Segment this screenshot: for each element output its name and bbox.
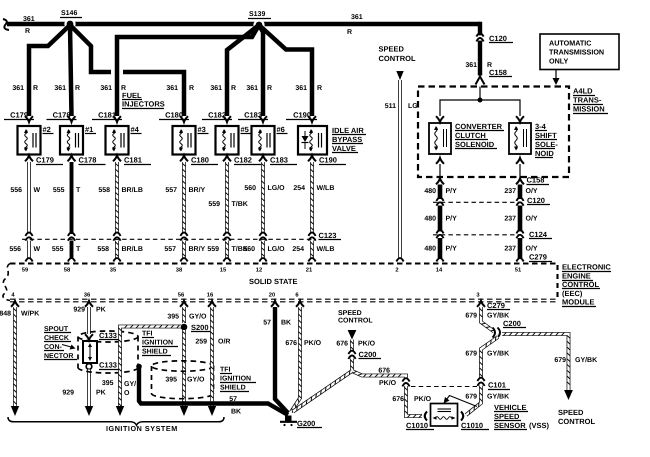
svg-text:SOLE-: SOLE- xyxy=(535,140,558,149)
wire 558 BR/LB xyxy=(115,162,119,234)
note box AUTOMATIC TRANSMISSION ONLY xyxy=(540,34,619,70)
node S200 xyxy=(181,324,188,331)
svg-text:559: 559 xyxy=(208,201,220,208)
svg-text:848: 848 xyxy=(0,311,11,318)
A4LD transmission boundary (dashed) xyxy=(418,87,569,178)
svg-text:C178: C178 xyxy=(79,156,97,165)
svg-text:C200: C200 xyxy=(359,350,377,359)
wire 679 GY/BK to speed control (right) xyxy=(502,334,569,390)
wire 361 R to injector #5 xyxy=(227,25,259,116)
electronic engine control module boundary (dashed) xyxy=(10,262,556,264)
svg-text:679: 679 xyxy=(465,394,477,401)
svg-text:36: 36 xyxy=(84,292,91,299)
svg-text:T: T xyxy=(76,187,81,194)
svg-text:15: 15 xyxy=(220,268,227,274)
wire 57 BK shield ground xyxy=(136,364,142,370)
connector C1010 (right) xyxy=(461,412,463,421)
svg-text:361: 361 xyxy=(100,85,112,92)
svg-text:395: 395 xyxy=(165,377,177,384)
svg-text:558: 558 xyxy=(98,187,110,194)
wire 361 R to injector #3 xyxy=(70,25,111,72)
svg-text:O/R: O/R xyxy=(218,338,230,346)
svg-text:PK/O: PK/O xyxy=(304,339,322,347)
svg-text:SHIELD: SHIELD xyxy=(220,385,246,392)
svg-text:NOID: NOID xyxy=(535,149,554,158)
wire 848 W/PK xyxy=(11,301,19,307)
svg-text:#3: #3 xyxy=(198,125,206,134)
wire 557 BR/Y xyxy=(182,162,186,234)
svg-text:SOLENOID: SOLENOID xyxy=(455,140,495,149)
converter clutch solenoid xyxy=(436,116,444,122)
svg-text:CONTROL: CONTROL xyxy=(338,318,373,325)
svg-text:679: 679 xyxy=(465,313,477,320)
svg-text:O/Y: O/Y xyxy=(526,215,538,223)
node S146 xyxy=(64,18,75,29)
svg-text:CONTROL: CONTROL xyxy=(562,280,599,289)
wire 395 GY/O from EEC pin 56 xyxy=(180,301,188,307)
svg-text:BR/Y: BR/Y xyxy=(189,245,206,253)
svg-text:#4: #4 xyxy=(131,125,140,134)
svg-text:929: 929 xyxy=(73,307,85,314)
svg-text:361: 361 xyxy=(351,14,363,21)
wire 511 LG from speed control xyxy=(396,71,403,80)
svg-text:555: 555 xyxy=(52,246,64,253)
wire 361 R to idle air bypass valve xyxy=(259,25,312,116)
svg-text:R: R xyxy=(189,85,194,92)
vehicle speed sensor VSS xyxy=(431,404,458,427)
svg-text:PK/O: PK/O xyxy=(414,395,432,403)
svg-text:3-4: 3-4 xyxy=(535,122,547,131)
svg-text:#2: #2 xyxy=(43,125,51,134)
svg-text:C183: C183 xyxy=(270,156,288,165)
svg-text:SPEED: SPEED xyxy=(558,408,584,417)
svg-text:12: 12 xyxy=(256,267,262,274)
svg-text:557: 557 xyxy=(165,187,177,194)
svg-text:56: 56 xyxy=(178,292,185,299)
svg-text:SHIELD: SHIELD xyxy=(142,349,168,356)
svg-text:676: 676 xyxy=(378,368,390,375)
svg-text:IGNITION SYSTEM: IGNITION SYSTEM xyxy=(106,424,178,433)
wire 555 T xyxy=(70,162,74,234)
svg-text:C158: C158 xyxy=(527,176,545,185)
svg-text:MODULE: MODULE xyxy=(562,298,595,307)
svg-text:SENSOR: SENSOR xyxy=(494,421,526,430)
svg-text:58: 58 xyxy=(64,267,71,274)
svg-text:GY/O: GY/O xyxy=(189,313,207,321)
svg-text:676: 676 xyxy=(336,341,348,348)
svg-text:CONTROL: CONTROL xyxy=(379,54,416,63)
wire 556 W xyxy=(27,162,31,234)
wire 559 T/BK xyxy=(225,162,229,234)
svg-text:676: 676 xyxy=(392,396,404,403)
svg-text:361: 361 xyxy=(54,85,66,92)
svg-text:C181: C181 xyxy=(98,111,116,120)
svg-text:PK: PK xyxy=(96,307,106,314)
svg-text:P/Y: P/Y xyxy=(446,245,458,253)
svg-text:BR/LB: BR/LB xyxy=(122,245,143,253)
svg-text:559: 559 xyxy=(207,246,219,253)
svg-text:480: 480 xyxy=(424,246,436,253)
svg-text:GY/O: GY/O xyxy=(187,376,205,384)
wire 560 LG/O xyxy=(261,162,265,234)
svg-text:R: R xyxy=(267,85,272,92)
connector C1010 (left) xyxy=(425,412,427,421)
connector C158 (top) xyxy=(476,77,485,85)
TFI ignition shield cylinder (around C133) xyxy=(78,331,138,342)
svg-text:GY/BK: GY/BK xyxy=(487,393,509,401)
svg-text:T/BK: T/BK xyxy=(232,200,248,208)
idle air bypass valve bottom connector C190 xyxy=(308,156,316,162)
svg-text:SPEED: SPEED xyxy=(494,412,520,421)
svg-text:361: 361 xyxy=(246,85,258,92)
svg-text:C133: C133 xyxy=(99,331,117,340)
svg-text:555: 555 xyxy=(53,187,65,194)
svg-text:#5: #5 xyxy=(241,125,249,134)
svg-text:560: 560 xyxy=(244,185,256,192)
svg-text:BR/LB: BR/LB xyxy=(122,186,143,194)
svg-text:57: 57 xyxy=(263,320,271,327)
svg-text:254: 254 xyxy=(293,185,305,192)
svg-text:CONVERTER: CONVERTER xyxy=(455,122,503,131)
svg-text:361: 361 xyxy=(12,85,24,92)
svg-text:C279: C279 xyxy=(529,253,547,262)
svg-text:38: 38 xyxy=(176,267,183,274)
wire 679 GY/BK from EEC pin 3 xyxy=(477,301,485,307)
wire 395 GY/O below S200 xyxy=(182,330,186,406)
svg-text:LG/O: LG/O xyxy=(268,245,286,253)
svg-text:#6: #6 xyxy=(277,125,285,134)
svg-text:361: 361 xyxy=(166,85,178,92)
connector C101 (PK/O wire) xyxy=(403,380,409,385)
svg-text:GY/: GY/ xyxy=(124,380,136,388)
callout arrow to spout connector xyxy=(62,345,73,348)
svg-text:R: R xyxy=(231,85,236,92)
svg-text:C178: C178 xyxy=(53,111,71,120)
svg-text:C101: C101 xyxy=(488,381,506,390)
svg-text:557: 557 xyxy=(164,246,176,253)
svg-text:R: R xyxy=(33,85,38,92)
svg-text:59: 59 xyxy=(22,267,29,274)
wire 361 R to injector #2 xyxy=(29,25,70,116)
wire 676 PK/O below C101 xyxy=(406,386,422,416)
svg-text:VEHICLE: VEHICLE xyxy=(494,403,527,412)
TFI ignition shield cylinder (second) xyxy=(152,361,214,371)
svg-text:(EEC): (EEC) xyxy=(562,289,583,298)
svg-text:C179: C179 xyxy=(10,111,28,120)
svg-text:361: 361 xyxy=(465,62,477,69)
svg-text:W: W xyxy=(34,246,41,253)
svg-text:BYPASS: BYPASS xyxy=(332,135,362,144)
svg-text:PK/O: PK/O xyxy=(358,340,376,348)
svg-text:W: W xyxy=(34,187,41,194)
svg-text:(VSS): (VSS) xyxy=(529,421,550,430)
svg-text:S139: S139 xyxy=(249,11,265,18)
svg-text:C180: C180 xyxy=(165,111,183,120)
svg-text:R: R xyxy=(347,29,352,36)
svg-text:676: 676 xyxy=(285,340,297,347)
svg-text:16: 16 xyxy=(207,292,214,299)
svg-text:395: 395 xyxy=(167,314,179,321)
connector C124 line xyxy=(433,234,521,236)
connector C101 line (dashed) xyxy=(411,386,477,388)
svg-text:C181: C181 xyxy=(124,156,142,165)
svg-text:O/Y: O/Y xyxy=(526,187,538,195)
svg-text:21: 21 xyxy=(306,267,313,274)
callout arrow to A4LD box xyxy=(555,70,557,80)
connector C101 (GY/BK wire) xyxy=(478,380,484,385)
wire 679 GY/BK to VSS xyxy=(466,386,481,416)
svg-text:PK: PK xyxy=(96,390,106,397)
svg-text:IGNITION: IGNITION xyxy=(220,376,251,383)
svg-text:CONTROL: CONTROL xyxy=(558,417,595,426)
svg-text:TRANSMISSION: TRANSMISSION xyxy=(549,48,604,57)
svg-text:P/Y: P/Y xyxy=(446,215,458,223)
svg-text:TFI: TFI xyxy=(220,367,231,374)
svg-text:PK/O: PK/O xyxy=(379,379,397,387)
label IGNITION SYSTEM with brace xyxy=(8,417,224,425)
svg-text:ENGINE: ENGINE xyxy=(562,271,591,280)
svg-text:511: 511 xyxy=(385,103,396,110)
wire 676 PK/O to ground G200 xyxy=(293,371,352,412)
wire 361 R main bus xyxy=(7,22,480,27)
ground G200 xyxy=(285,416,292,422)
junction dot in transmission xyxy=(478,98,483,103)
svg-text:S146: S146 xyxy=(61,10,77,17)
svg-text:679: 679 xyxy=(554,357,566,364)
svg-text:R: R xyxy=(75,85,80,92)
svg-text:361: 361 xyxy=(295,85,307,92)
svg-text:259: 259 xyxy=(195,339,207,346)
svg-text:S200: S200 xyxy=(191,323,209,332)
svg-text:SPEED: SPEED xyxy=(379,45,405,54)
svg-text:T: T xyxy=(76,246,81,253)
connector C158 (transmission case) xyxy=(436,179,444,185)
svg-text:A4LD: A4LD xyxy=(573,87,593,96)
svg-text:480: 480 xyxy=(424,216,436,223)
wire 254 W/LB xyxy=(310,162,314,234)
svg-text:C1010: C1010 xyxy=(406,421,428,430)
svg-text:TFI: TFI xyxy=(142,331,153,338)
svg-text:CLUTCH: CLUTCH xyxy=(455,131,486,140)
svg-text:SPEED: SPEED xyxy=(338,310,362,317)
svg-text:W/PK: W/PK xyxy=(21,310,39,318)
svg-text:INJECTORS: INJECTORS xyxy=(122,100,165,109)
wire 929 PK (below C133) xyxy=(87,370,91,407)
svg-text:237: 237 xyxy=(504,246,516,253)
svg-text:254: 254 xyxy=(292,246,304,253)
svg-text:361: 361 xyxy=(23,16,35,23)
wire 480 P/Y xyxy=(438,185,443,200)
wire to 3-4 shift solenoid xyxy=(480,100,520,116)
svg-text:TRANS-: TRANS- xyxy=(573,96,602,105)
wire 395 GY/O shield drain from S200 xyxy=(120,327,181,407)
svg-text:C180: C180 xyxy=(191,156,209,165)
3-4 shift solenoid xyxy=(516,116,524,122)
svg-text:R: R xyxy=(25,28,30,35)
svg-text:361: 361 xyxy=(210,85,222,92)
svg-text:IGNITION: IGNITION xyxy=(142,340,173,347)
svg-text:P/Y: P/Y xyxy=(446,187,458,195)
svg-text:LG/O: LG/O xyxy=(268,184,286,192)
svg-text:ONLY: ONLY xyxy=(549,57,569,66)
svg-text:IDLE AIR: IDLE AIR xyxy=(332,126,364,135)
svg-text:C120: C120 xyxy=(489,34,507,43)
wire 361 R to injector #6 xyxy=(259,25,263,116)
wire 237 O/Y xyxy=(518,185,523,200)
node S139 xyxy=(253,19,264,30)
svg-text:SOLID STATE: SOLID STATE xyxy=(249,277,297,286)
svg-text:R: R xyxy=(317,85,322,92)
wire 679 GY/BK down to C101 xyxy=(481,337,498,378)
wire 361 R to transmission xyxy=(478,24,480,76)
svg-text:LG: LG xyxy=(408,103,418,110)
svg-text:C158: C158 xyxy=(489,68,507,77)
svg-text:W/LB: W/LB xyxy=(317,184,335,192)
svg-text:480: 480 xyxy=(424,188,436,195)
wire 676 PK/O from speed control xyxy=(348,330,357,340)
wire 259 O/R xyxy=(208,301,216,307)
svg-text:395: 395 xyxy=(102,380,114,387)
svg-text:#1: #1 xyxy=(85,125,93,134)
wire to converter clutch solenoid xyxy=(440,100,480,116)
wire 676 PK/O to VSS xyxy=(352,359,406,380)
svg-text:SHIFT: SHIFT xyxy=(535,131,557,140)
svg-text:BK: BK xyxy=(231,409,241,416)
svg-text:558: 558 xyxy=(97,246,109,253)
wire 361 R to injector #1 xyxy=(70,25,72,116)
svg-text:C1010: C1010 xyxy=(461,421,483,430)
svg-text:GY/BK: GY/BK xyxy=(575,356,597,364)
wire inside transmission from C158 xyxy=(479,87,481,101)
svg-text:35: 35 xyxy=(110,267,117,274)
svg-text:C123: C123 xyxy=(319,231,337,240)
wire 57 BK from EEC pin 20 xyxy=(271,301,279,307)
svg-text:GY/BK: GY/BK xyxy=(487,350,509,358)
wire 361 R to injector #4 xyxy=(117,25,259,116)
svg-text:W/LB: W/LB xyxy=(317,245,335,253)
svg-text:C200: C200 xyxy=(503,319,521,328)
wire 929 PK xyxy=(85,301,93,307)
svg-text:51: 51 xyxy=(515,268,522,274)
svg-text:BR/Y: BR/Y xyxy=(189,186,206,194)
svg-text:ELECTRONIC: ELECTRONIC xyxy=(562,263,611,272)
svg-text:C190: C190 xyxy=(319,156,337,165)
connector C123 line xyxy=(22,238,316,240)
svg-text:G200: G200 xyxy=(297,419,315,428)
svg-text:C183: C183 xyxy=(244,111,262,120)
connector C200 (PK/O wire) xyxy=(349,353,355,358)
svg-text:AUTOMATIC: AUTOMATIC xyxy=(549,39,591,48)
svg-text:679: 679 xyxy=(465,351,477,358)
svg-text:14: 14 xyxy=(436,268,443,274)
connector C120 line (transmission wires) xyxy=(433,201,521,203)
svg-text:57: 57 xyxy=(229,396,237,403)
svg-text:556: 556 xyxy=(10,187,22,194)
svg-text:2: 2 xyxy=(395,267,398,274)
svg-text:C133: C133 xyxy=(99,361,117,370)
svg-text:C124: C124 xyxy=(529,230,548,239)
svg-text:C279: C279 xyxy=(487,301,505,310)
svg-text:O/Y: O/Y xyxy=(526,245,538,253)
svg-text:20: 20 xyxy=(269,292,275,299)
svg-text:560: 560 xyxy=(243,246,255,253)
svg-text:C182: C182 xyxy=(234,156,252,165)
svg-text:929: 929 xyxy=(62,390,74,397)
connector C200 (GY/BK wire) xyxy=(494,329,500,336)
svg-text:VALVE: VALVE xyxy=(332,144,356,153)
svg-text:C179: C179 xyxy=(36,156,54,165)
svg-text:MISSION: MISSION xyxy=(573,105,605,114)
svg-text:BK: BK xyxy=(281,320,291,327)
svg-text:556: 556 xyxy=(9,246,21,253)
spout check connector C133 xyxy=(83,341,97,363)
svg-text:O: O xyxy=(124,390,130,397)
svg-text:C120: C120 xyxy=(527,196,545,205)
svg-text:237: 237 xyxy=(504,216,516,223)
callout arrow to VSS xyxy=(447,396,478,407)
svg-text:237: 237 xyxy=(504,188,516,195)
wire 676 PK/O from EEC pin 6 xyxy=(296,301,304,307)
svg-text:C182: C182 xyxy=(208,111,226,120)
svg-text:C190: C190 xyxy=(293,111,311,120)
